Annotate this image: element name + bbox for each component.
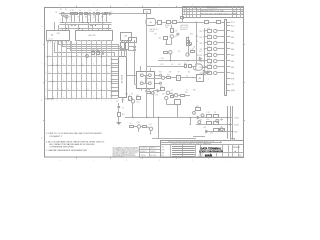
resistor RB2 [208,36,212,39]
svg-text:P1-2: P1-2 [231,25,235,27]
resistor R15 [191,51,195,53]
resistor pack RP2 [126,43,129,50]
transistor Q17 [198,121,201,124]
resistor R14 [164,52,168,54]
transistor QT7 [214,65,217,68]
transistor QT8 [214,71,217,74]
resistor R24 [137,97,141,100]
junctions W117 [146,117,147,118]
wire BR row1 [196,117,233,119]
resistor R18 [167,77,171,79]
wire elbow W3 [66,41,68,48]
wire v153 [153,91,155,117]
left feed components [188,42,191,45]
relay contact b [148,74,151,77]
svg-text:CR5: CR5 [206,56,209,58]
wire QT8 right [217,72,225,74]
IC A3 bottom pins [121,40,123,42]
svg-text:ENGR LH: ENGR LH [141,151,147,153]
diode CR3 [157,90,159,92]
fuse box F1 [144,10,151,14]
svg-text:CONTR NO: CONTR NO [141,148,148,150]
resistor R19 [161,88,165,91]
svg-text:R35: R35 [193,89,196,91]
svg-text:R30: R30 [206,119,209,121]
wire BR row3 [205,131,233,133]
transistor Q14 [149,127,152,130]
transistor Q7 [161,76,164,79]
wire R31b to connector [220,22,225,24]
wires Q12 [166,100,168,104]
svg-text:7: 7 [208,79,209,81]
svg-text:7442: 7442 [57,33,61,35]
svg-text:4.7K: 4.7K [207,46,210,48]
wire QT5 right [217,54,225,56]
test point TP1 [106,12,108,14]
svg-text:TP1: TP1 [165,27,168,29]
svg-text:KB5: KB5 [200,55,203,57]
svg-text:4.7K: 4.7K [207,52,210,54]
wire elbow W4 [70,41,72,50]
wire gate in [192,66,196,68]
title block vertical dividers [170,145,172,157]
component box X4 [175,100,181,105]
svg-text:C4: C4 [197,11,199,13]
wire BR4 short [193,136,205,138]
wire buffer [204,72,206,74]
resistor R6 [105,13,107,15]
svg-text:6-7: 6-7 [233,11,235,13]
wire T2 [128,50,134,52]
wire W78c [181,77,196,79]
resistor R26 [143,126,147,128]
svg-text:MFG RW: MFG RW [151,155,157,157]
resistor R12 [171,29,174,33]
wire v158 [158,117,160,139]
svg-text:9: 9 [98,20,99,22]
wire W78b [165,77,167,79]
wires Q13 Q14 [134,126,138,128]
svg-text:4.7K: 4.7K [207,28,210,30]
svg-text:NOTE 3: NOTE 3 [165,25,171,27]
transistor Q13 [137,125,140,128]
svg-text:C1: C1 [65,9,67,11]
svg-text:Q13: Q13 [137,122,140,124]
svg-text:CR4: CR4 [155,95,158,97]
wire drops from top rail [62,15,64,21]
gate U5 [196,64,203,70]
wire relay feed [134,40,136,84]
IC A1 pin stubs [48,41,50,42]
svg-text:C3: C3 [88,10,90,12]
svg-text:R8: R8 [93,50,95,52]
svg-text:R1: R1 [60,9,62,11]
transistor QT5 [214,53,217,56]
wire QT3 right [217,42,225,44]
svg-text:REVISED PER ECO 4-1188: REVISED PER ECO 4-1188 [201,11,223,13]
resistor RB1 [208,30,212,33]
wire elbow W2 [62,41,64,46]
IC A4 output wire [127,75,137,77]
svg-text:6: 6 [205,75,206,77]
svg-text:T1: T1 [178,78,180,80]
wire relay top stubs [140,66,142,71]
component box small1 [164,37,168,40]
wire Q4 down [171,38,173,44]
svg-text:R33: R33 [196,106,199,108]
component box K2 [158,21,162,25]
diode CR5 [206,130,208,132]
wire M1 to rail [146,13,148,18]
component slash F2 [205,21,209,24]
resistor R8 [92,52,95,55]
svg-text:R22: R22 [185,92,188,94]
capacitor C6 chain [118,103,120,107]
wire W78 [147,78,161,80]
transistor QT6 [214,59,217,62]
wires Q11 [129,95,131,96]
svg-text:FORM 1014 REV B: FORM 1014 REV B [113,156,124,158]
bus wire B3 [60,28,112,30]
svg-text:2: 2 [88,20,89,22]
svg-text:KB1: KB1 [231,31,234,33]
wire BR vertical link [190,118,192,125]
IC A4 left pins [112,59,118,61]
IC A4 top pins [118,54,120,58]
svg-text:4.7K: 4.7K [207,34,210,36]
svg-text:C5: C5 [93,17,95,19]
svg-text:C8: C8 [193,47,195,49]
wire QT1 right [217,30,225,32]
svg-text:4.7K: 4.7K [207,40,210,42]
relay contact a [140,74,143,77]
resistor R25 [171,96,174,98]
svg-text:R5: R5 [96,10,98,12]
resistor R22v [118,113,121,117]
wire T1 [128,46,134,48]
relay output terminal a [160,74,162,76]
svg-text:CR7: CR7 [210,133,213,135]
svg-text:R25: R25 [170,93,173,95]
transistor Q2 [65,15,68,18]
svg-text:KB7: KB7 [200,67,203,69]
bus wire B1 [60,22,112,24]
relay internal wires [143,75,148,77]
svg-text:Q11: Q11 [137,101,140,103]
svg-text:KB2: KB2 [200,37,203,39]
svg-text:CHK DH: CHK DH [141,155,146,157]
svg-text:2. ALL DIODES ARE 1N914, RESI: 2. ALL DIODES ARE 1N914, RESISTORS IN OH… [46,140,104,143]
svg-text:1. PARTIAL REFERENCE DESIGNAT: 1. PARTIAL REFERENCE DESIGNATIONS [46,149,87,152]
transistor Q19 [151,92,154,95]
resistor R28 [207,115,212,118]
svg-text:4.7K: 4.7K [207,58,210,60]
ground GND1 [117,122,122,124]
wire V3 down [232,139,234,141]
diode CR4 [197,116,199,118]
resistor R3 [80,13,83,15]
bus vertical V2 [230,106,232,139]
wire v166 [166,40,168,45]
svg-text:Q12: Q12 [162,94,165,96]
svg-text:3: 3 [187,13,188,15]
wire top rail [59,13,147,15]
svg-text:417024: 417024 [233,147,241,149]
svg-text:C6: C6 [171,64,173,66]
resistor R11 [173,21,177,24]
svg-text:KB1: KB1 [200,31,203,33]
svg-text:2COM: 2COM [234,124,239,126]
svg-text:Q5: Q5 [178,51,180,53]
svg-text:ISS: ISS [162,155,164,157]
svg-text:SIZE D: SIZE D [199,154,203,156]
terminal circle T2 [134,49,136,51]
svg-text:ON SHEET 2: ON SHEET 2 [50,136,63,138]
transistor Q8 [166,91,169,94]
wire stubs buses to IC A2 [78,25,80,31]
svg-text:1 2 4 8: 1 2 4 8 [48,39,53,41]
component box X2 [177,76,181,81]
wire C6-R22 [118,117,120,122]
svg-text:Q6: Q6 [175,36,177,38]
left cluster BR [196,108,201,111]
svg-text:470: 470 [169,72,172,74]
resistor RB4 [208,48,212,51]
matrix junction dots [47,56,48,57]
title bottom cells [204,152,244,154]
transistor Q6 [186,53,189,56]
wire QT2 right [217,36,225,38]
svg-text:KB6: KB6 [231,61,234,63]
relay K1 box [137,72,155,89]
svg-text:2: 2 [191,11,192,13]
svg-text:A3: A3 [125,35,127,38]
svg-text:Q15: Q15 [199,119,202,121]
resistor R17 [189,65,192,68]
svg-text:R27 C9 Q14: R27 C9 Q14 [180,27,189,29]
matrix horizontal wires [47,56,119,58]
svg-text:A5: A5 [150,21,152,24]
bus wire B2 [60,24,112,26]
svg-text:KB8: KB8 [231,73,234,75]
svg-text:K1: K1 [186,76,188,78]
transistor Q1 [61,12,64,15]
svg-text:B: B [41,100,42,102]
resistor R20 [181,95,185,97]
capacitor BR [221,119,223,121]
wire W117 [125,117,228,119]
connector J1 body [224,20,226,96]
title block fine print [172,146,195,148]
transistor Q3 [86,55,89,58]
component box X5 [129,38,137,43]
IC A3 [121,33,132,41]
svg-text:CHK: CHK [162,149,165,151]
resistor R27b [130,126,134,128]
svg-text:A2 7475: A2 7475 [88,34,95,37]
svg-text:1: 1 [187,11,188,13]
resistor R10 [167,21,171,24]
svg-text:F1: F1 [146,12,148,14]
capacitor C5 [182,18,184,22]
transistor QT3 [214,41,217,44]
IC A2 [76,31,113,41]
svg-text:R4: R4 [85,17,87,19]
resistor RB3 [208,42,212,45]
transistor Q18 [220,128,223,131]
svg-text:60435: 60435 [205,154,213,158]
svg-text:OTHERWISE SPECIFIED: OTHERWISE SPECIFIED [50,146,75,148]
sheet marker box [231,139,235,141]
wire Q5 down [170,54,172,61]
terminal circle T1 [134,46,136,48]
resistor RB6 [208,60,212,63]
title block header rows [161,142,223,144]
diode CR1 [102,13,104,15]
wire elbow W5 [54,43,56,52]
transistor QT2 [214,35,217,38]
relay bottom stubs [141,88,143,90]
wire stubs buses to IC A1 [54,22,56,31]
svg-text:CR6: CR6 [122,99,125,101]
resistor R4 [85,13,88,15]
svg-text:ZONE: ZONE [194,8,198,10]
svg-text:REVISED AND REDRAWN PER ECO 4-: REVISED AND REDRAWN PER ECO 4-1201 [201,12,237,15]
relay output terminal b [160,82,162,84]
wire chain y22b [170,22,173,24]
svg-text:KB7: KB7 [231,67,234,69]
capacitor C4 [102,51,104,55]
svg-text:R24: R24 [125,94,128,96]
IC A2 pin stubs [77,40,79,41]
wire QT4 right [217,48,225,50]
relay A5 box [146,19,156,26]
wire W138 [152,138,196,140]
diode CR1b [110,13,112,15]
wire Q4 top [171,25,173,29]
sheet border frame [45,8,244,158]
svg-text:A6: A6 [199,77,201,80]
resistor RB8 [208,72,212,75]
svg-text:4: 4 [79,20,80,22]
svg-text:C7: C7 [186,89,188,91]
resistor R32 [214,129,219,132]
capacitor C2 [93,12,95,16]
resistor R2 [75,13,78,15]
svg-text:R9: R9 [97,50,99,52]
bus vertical V1 [227,106,229,139]
svg-text:KB4: KB4 [200,49,203,51]
wires lower midright [170,93,175,95]
svg-text:TP2: TP2 [154,34,157,36]
component box X3 [197,75,204,82]
svg-text:A4 74154: A4 74154 [120,75,123,83]
long vertical W147 [146,14,148,117]
bus vertical V3 [232,106,234,139]
resistor R31c [214,122,219,125]
component box R31b [217,21,221,24]
svg-text:5: 5 [105,20,106,22]
transistor Q9 [174,94,177,97]
relay contact d [148,82,151,85]
svg-text:2(TA4,TA4): 2(TA4,TA4) [45,98,54,101]
resistor RB5 [208,54,212,57]
wire chain y22 [156,22,158,24]
transistor Q4 [170,35,173,38]
svg-text:Q10: Q10 [196,36,199,38]
resistor R29 [214,115,219,118]
transistor Q5 [169,51,172,54]
IC A4 decoder [119,57,127,98]
svg-text:R27: R27 [122,114,125,116]
svg-text:R20: R20 [190,34,193,36]
wire h60 [158,60,204,62]
svg-text:C9: C9 [122,108,124,110]
rail junction dots [70,13,71,14]
svg-text:KB8: KB8 [200,73,203,75]
svg-text:Q8: Q8 [171,90,173,92]
resistor R5 [97,13,100,15]
svg-text:R17: R17 [184,63,187,65]
bus junction dots [62,22,63,23]
capacitor C1 [89,13,91,15]
wire elbow W1 [58,41,60,44]
relay output wires [155,75,160,77]
transistor QT4 [214,47,217,50]
svg-text:8: 8 [60,20,61,22]
wire column feed [204,28,206,73]
resistor R34 [147,92,151,94]
svg-text:SEE NOTE 2: SEE NOTE 2 [150,29,159,31]
svg-text:KB3: KB3 [231,43,234,45]
svg-text:6: 6 [70,20,71,22]
svg-text:R16: R16 [161,58,164,60]
IC A1 [47,31,70,41]
svg-text:470: 470 [220,126,223,128]
bus junction dots BR [227,117,228,118]
resistor pack RP1 [121,43,125,50]
wire to connector top [182,22,205,24]
resistor R13 vertical [187,41,190,46]
resistor R23 [129,97,132,101]
relay contact c [140,82,143,85]
title block outline [161,141,244,158]
svg-text:R18: R18 [159,72,162,74]
transistor Q11 [131,100,134,103]
wire W90 [154,90,158,92]
svg-text:8-2: 8-2 [233,13,235,15]
diode CR2 [199,57,201,59]
resistor R1 [71,13,74,15]
resistor R16 [185,65,187,68]
svg-text:CR2: CR2 [158,38,161,40]
svg-text:KB2: KB2 [231,37,234,39]
matrix vertical wires [47,41,49,98]
parts strip table [140,147,161,158]
connector J1 pins [227,22,230,24]
svg-text:470: 470 [167,75,170,77]
svg-text:Q16: Q16 [203,127,206,129]
resistor R30 [207,122,212,125]
transistor QT1 [214,29,217,32]
svg-text:Q1: Q1 [55,11,57,13]
resistor RB7 [208,66,212,69]
wire F2 to R31 [209,22,216,24]
wire QT7 right [217,66,225,68]
svg-text:KB5: KB5 [231,55,234,57]
wire v196 feed [196,22,198,64]
IC A4 bottom pin wire [122,97,124,103]
